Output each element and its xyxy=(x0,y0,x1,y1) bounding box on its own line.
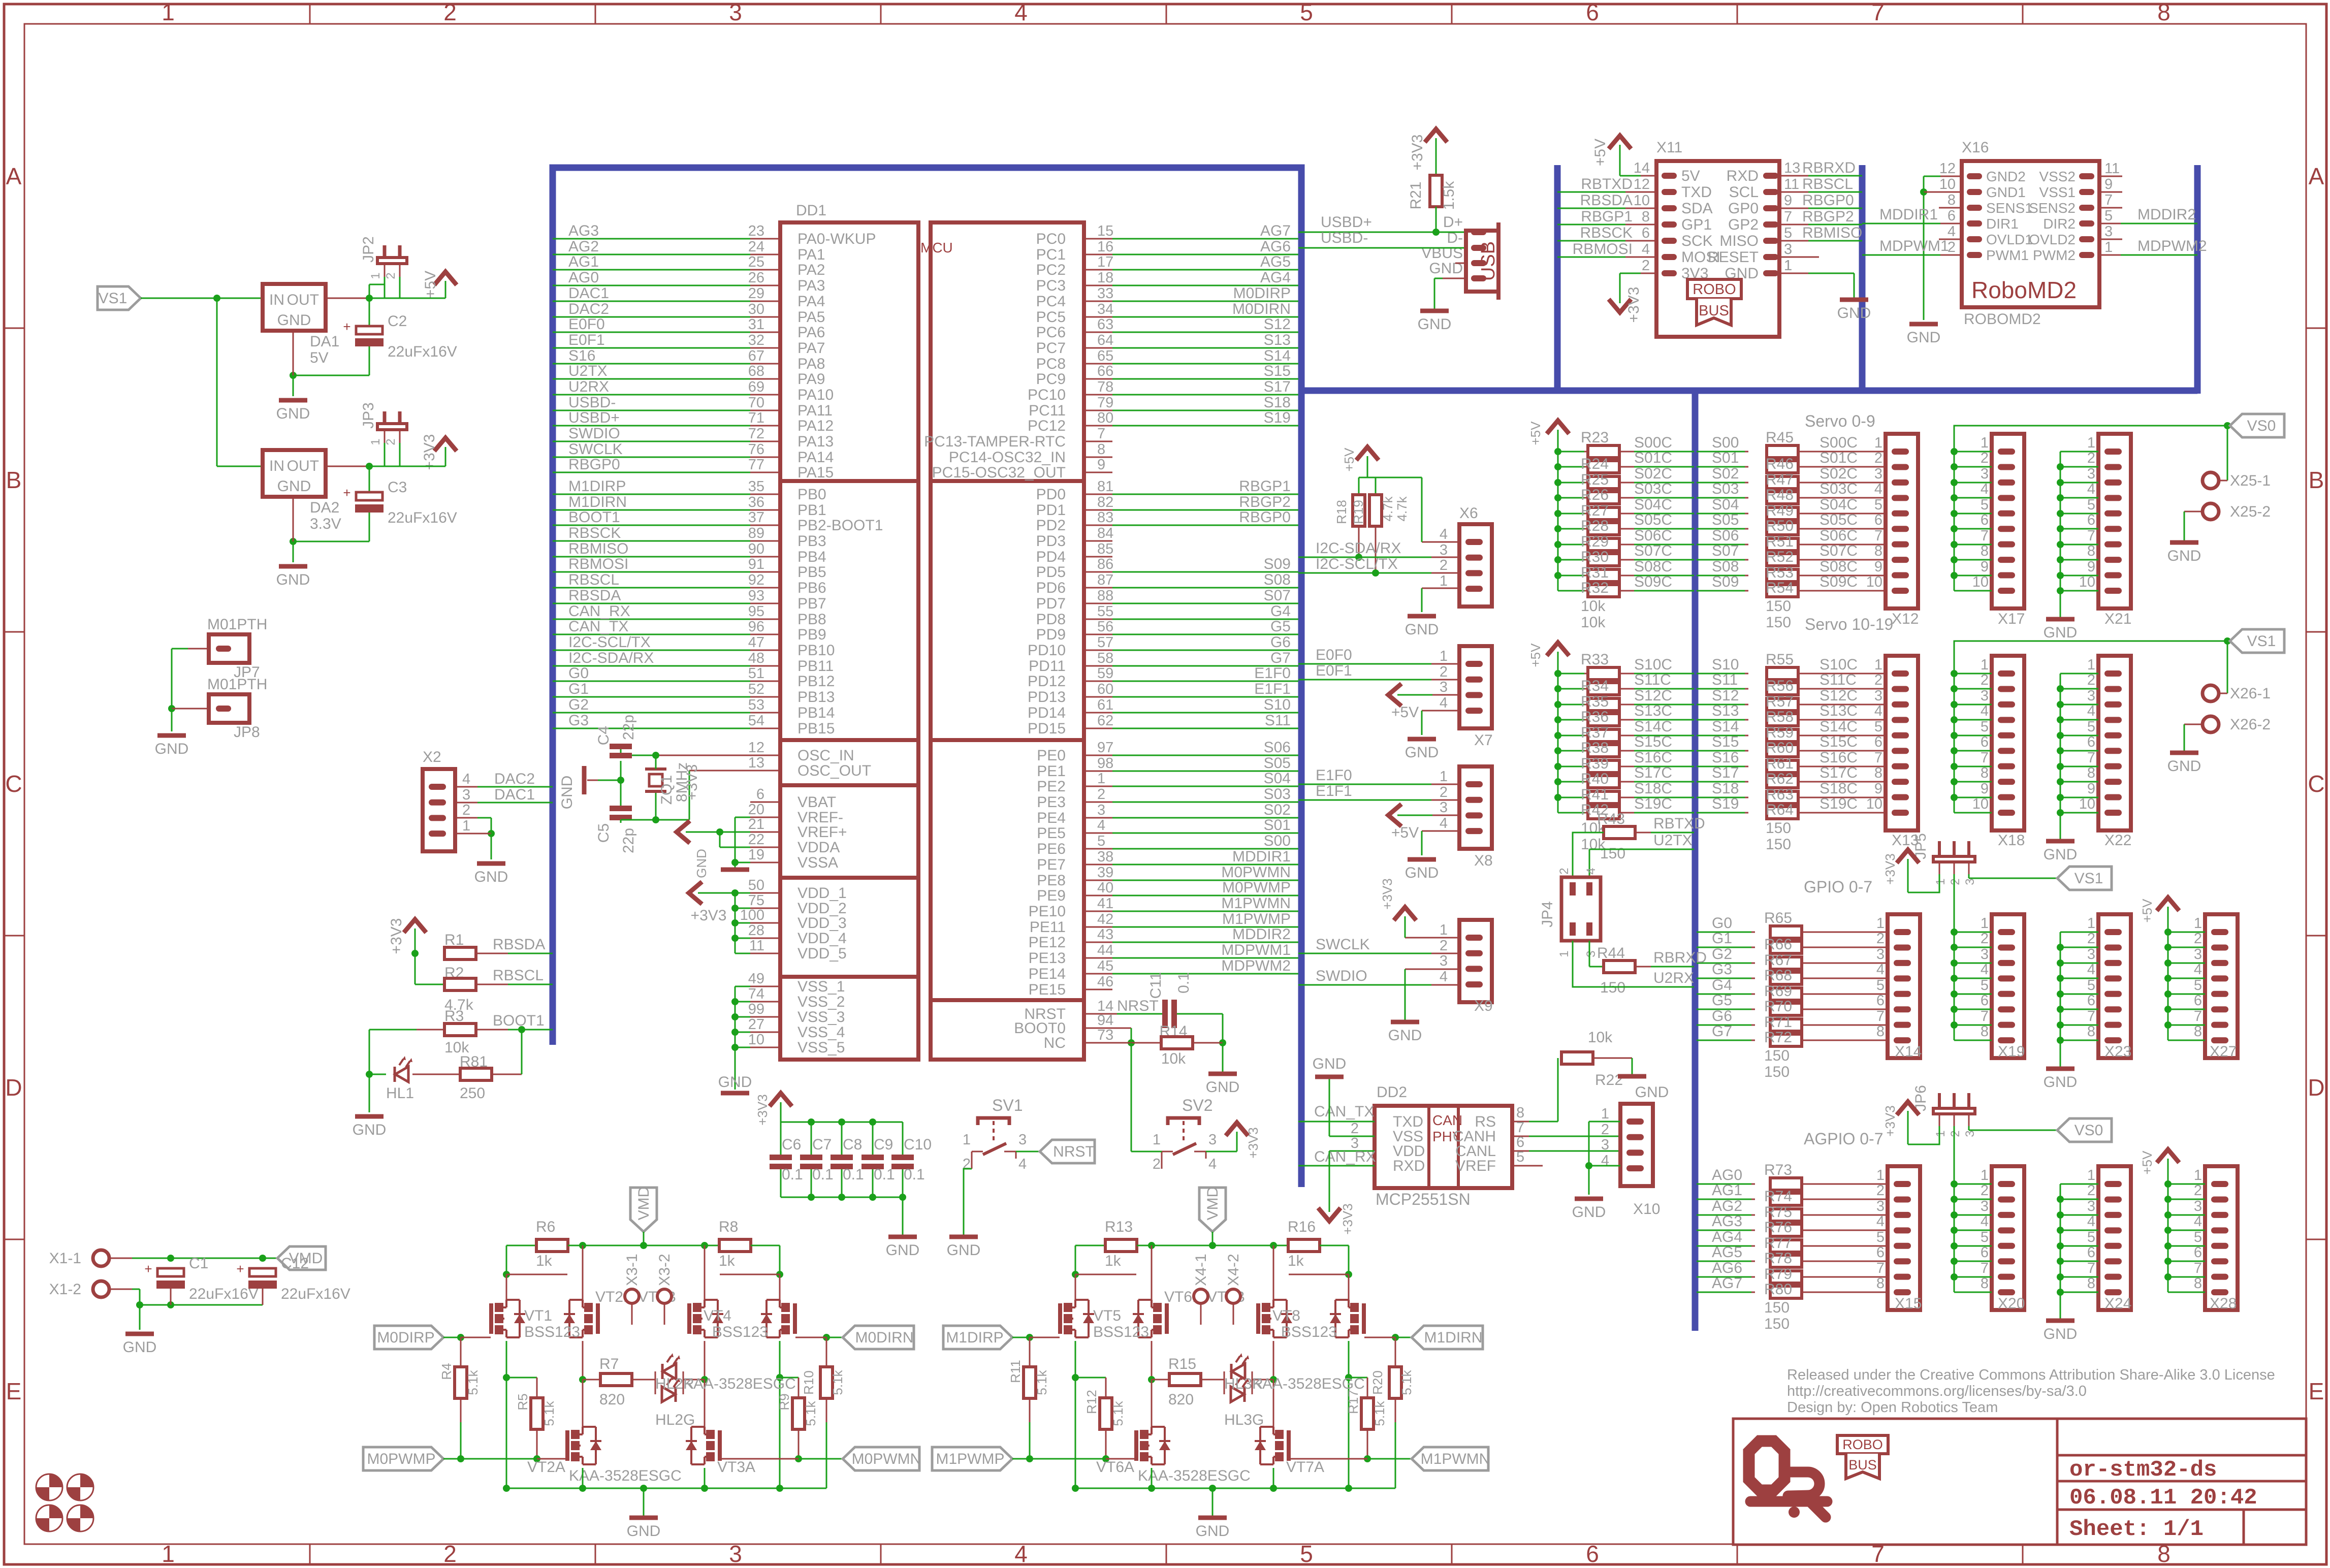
svg-text:PD7: PD7 xyxy=(1036,595,1066,612)
svg-text:46: 46 xyxy=(1097,974,1113,990)
svg-text:NC: NC xyxy=(1044,1035,1066,1051)
svg-text:RBGP2: RBGP2 xyxy=(1802,208,1854,225)
svg-text:PC1: PC1 xyxy=(1036,246,1066,263)
svg-text:PA4: PA4 xyxy=(797,293,825,310)
svg-text:10k: 10k xyxy=(1581,614,1606,631)
svg-text:150: 150 xyxy=(1764,1299,1790,1316)
svg-text:S19C: S19C xyxy=(1634,795,1672,812)
svg-text:7: 7 xyxy=(2104,192,2113,208)
svg-text:R69: R69 xyxy=(1764,983,1792,1000)
svg-text:78: 78 xyxy=(1097,379,1113,395)
svg-text:73: 73 xyxy=(1097,1027,1113,1043)
svg-text:5V: 5V xyxy=(310,349,329,366)
svg-text:X2: X2 xyxy=(423,749,441,765)
svg-text:4: 4 xyxy=(1018,1156,1027,1172)
svg-text:12: 12 xyxy=(748,740,764,756)
svg-text:4: 4 xyxy=(2194,962,2202,978)
svg-text:VS0: VS0 xyxy=(2247,418,2276,434)
svg-text:5.1k: 5.1k xyxy=(1399,1369,1414,1395)
svg-text:G3: G3 xyxy=(1712,961,1732,978)
svg-text:4: 4 xyxy=(1642,241,1650,258)
svg-text:2: 2 xyxy=(2194,931,2202,947)
svg-text:PC2: PC2 xyxy=(1036,262,1066,278)
svg-text:S06: S06 xyxy=(1264,739,1291,756)
svg-text:81: 81 xyxy=(1097,478,1113,495)
svg-text:PD4: PD4 xyxy=(1036,549,1066,565)
svg-text:70: 70 xyxy=(748,395,764,411)
svg-text:SCK: SCK xyxy=(1681,233,1713,249)
svg-text:S10C: S10C xyxy=(1820,656,1858,673)
svg-text:S06: S06 xyxy=(1712,527,1739,544)
svg-text:PA12: PA12 xyxy=(797,418,834,434)
svg-text:PA2: PA2 xyxy=(797,262,825,278)
svg-text:C3: C3 xyxy=(388,479,407,496)
svg-text:S06C: S06C xyxy=(1820,527,1858,544)
svg-text:+5V: +5V xyxy=(1391,704,1419,721)
svg-text:M1DIRP: M1DIRP xyxy=(568,478,626,495)
svg-text:M1DIRP: M1DIRP xyxy=(946,1329,1003,1346)
svg-text:8: 8 xyxy=(1874,765,1882,781)
svg-text:MDPWM1: MDPWM1 xyxy=(1879,238,1949,254)
svg-text:C8: C8 xyxy=(843,1136,862,1153)
svg-text:PE2: PE2 xyxy=(1037,778,1066,795)
svg-text:E0F0: E0F0 xyxy=(1316,647,1352,663)
svg-text:6: 6 xyxy=(1876,993,1885,1009)
svg-text:2: 2 xyxy=(1949,878,1962,885)
svg-text:GND: GND xyxy=(2167,758,2201,775)
svg-text:+3V3: +3V3 xyxy=(1340,1203,1355,1234)
svg-text:7: 7 xyxy=(1874,528,1882,544)
svg-text:BSS123: BSS123 xyxy=(1093,1324,1149,1340)
svg-text:MDPWM2: MDPWM2 xyxy=(2137,238,2207,254)
svg-text:U2TX: U2TX xyxy=(568,363,608,379)
svg-text:PC11: PC11 xyxy=(1029,402,1066,419)
svg-text:PA5: PA5 xyxy=(797,309,825,326)
svg-text:PA15: PA15 xyxy=(797,464,834,481)
svg-text:VSS1: VSS1 xyxy=(2039,184,2076,200)
svg-text:GND: GND xyxy=(353,1122,387,1138)
svg-text:M0DIRN: M0DIRN xyxy=(855,1329,913,1346)
svg-text:HL2G: HL2G xyxy=(655,1412,695,1428)
svg-text:25: 25 xyxy=(748,254,764,270)
svg-text:5.1k: 5.1k xyxy=(830,1369,845,1395)
svg-text:1: 1 xyxy=(2087,435,2095,451)
svg-text:7: 7 xyxy=(1871,0,1885,25)
svg-text:G0: G0 xyxy=(1712,915,1732,932)
svg-text:32: 32 xyxy=(748,332,764,348)
svg-text:44: 44 xyxy=(1097,942,1113,958)
svg-text:RXD: RXD xyxy=(1393,1158,1425,1174)
svg-text:PWM2: PWM2 xyxy=(2033,247,2076,263)
svg-text:S19: S19 xyxy=(1264,409,1291,426)
svg-text:VT7A: VT7A xyxy=(1286,1459,1324,1476)
svg-text:63: 63 xyxy=(1097,316,1113,333)
svg-text:GND: GND xyxy=(1405,621,1439,638)
svg-text:R39: R39 xyxy=(1581,755,1609,772)
svg-text:S02: S02 xyxy=(1712,465,1739,482)
svg-text:1: 1 xyxy=(2194,915,2202,932)
svg-text:1: 1 xyxy=(1876,915,1885,932)
svg-text:S01: S01 xyxy=(1712,450,1739,466)
svg-text:7: 7 xyxy=(1874,750,1882,766)
svg-text:+: + xyxy=(343,319,350,334)
svg-text:G0: G0 xyxy=(568,665,589,682)
svg-text:ROBO: ROBO xyxy=(1693,281,1736,298)
svg-text:2: 2 xyxy=(1876,1182,1885,1199)
svg-text:7: 7 xyxy=(1876,1008,1885,1025)
svg-text:GP1: GP1 xyxy=(1681,216,1712,233)
svg-text:10: 10 xyxy=(1972,574,1989,590)
svg-text:R77: R77 xyxy=(1764,1235,1792,1252)
svg-text:150: 150 xyxy=(1766,614,1791,631)
svg-text:11: 11 xyxy=(2104,161,2120,177)
svg-text:29: 29 xyxy=(748,285,764,302)
svg-text:1: 1 xyxy=(1876,1167,1885,1183)
svg-text:5.1k: 5.1k xyxy=(1110,1400,1126,1426)
svg-text:BSS123: BSS123 xyxy=(712,1324,768,1340)
svg-text:GND1: GND1 xyxy=(1986,184,2026,200)
svg-text:3: 3 xyxy=(2087,466,2095,482)
svg-text:51: 51 xyxy=(748,665,764,682)
svg-text:S18C: S18C xyxy=(1820,780,1858,797)
svg-text:USBD+: USBD+ xyxy=(1321,214,1372,231)
svg-text:C4: C4 xyxy=(595,726,612,745)
svg-text:26: 26 xyxy=(748,270,764,286)
svg-text:6: 6 xyxy=(2087,1244,2095,1261)
svg-text:1: 1 xyxy=(162,0,175,25)
svg-text:8: 8 xyxy=(1097,441,1105,458)
svg-text:37: 37 xyxy=(748,509,764,526)
svg-text:74: 74 xyxy=(748,986,764,1002)
svg-text:X28: X28 xyxy=(2210,1295,2237,1312)
svg-text:5: 5 xyxy=(2087,1229,2095,1245)
svg-text:1: 1 xyxy=(1981,1167,1989,1183)
svg-text:MISO: MISO xyxy=(1719,233,1759,249)
svg-text:R33: R33 xyxy=(1581,651,1609,668)
svg-text:OSC_OUT: OSC_OUT xyxy=(797,762,871,779)
svg-text:R16: R16 xyxy=(1288,1219,1316,1235)
svg-text:GND: GND xyxy=(947,1242,981,1259)
svg-text:G6: G6 xyxy=(1712,1008,1732,1025)
svg-text:VSS_2: VSS_2 xyxy=(797,994,845,1010)
svg-text:4: 4 xyxy=(1981,481,1989,497)
svg-text:+: + xyxy=(343,485,350,500)
svg-text:GND: GND xyxy=(1418,316,1452,333)
svg-text:+3V3: +3V3 xyxy=(755,1094,770,1125)
svg-text:1: 1 xyxy=(162,1541,175,1567)
svg-text:GND: GND xyxy=(277,312,311,329)
svg-text:+5V: +5V xyxy=(1592,139,1609,166)
svg-text:RXD: RXD xyxy=(1727,168,1759,184)
svg-text:10k: 10k xyxy=(1161,1050,1186,1067)
svg-text:6: 6 xyxy=(2087,993,2095,1009)
svg-text:MDDIR2: MDDIR2 xyxy=(2137,206,2196,223)
svg-text:VDD_1: VDD_1 xyxy=(797,885,847,902)
svg-text:4: 4 xyxy=(2087,703,2095,719)
svg-text:R58: R58 xyxy=(1766,709,1794,725)
svg-text:X23: X23 xyxy=(2104,1043,2131,1060)
svg-text:8: 8 xyxy=(2087,1275,2095,1292)
svg-text:R68: R68 xyxy=(1764,967,1792,984)
svg-text:75: 75 xyxy=(748,892,764,909)
svg-text:PE9: PE9 xyxy=(1037,887,1066,904)
svg-text:PA1: PA1 xyxy=(797,246,825,263)
svg-text:0.1: 0.1 xyxy=(843,1166,864,1183)
svg-text:VT6A: VT6A xyxy=(1096,1459,1134,1476)
svg-text:+3V3: +3V3 xyxy=(1625,287,1642,323)
svg-text:PB9: PB9 xyxy=(797,626,826,643)
svg-text:Released under the Creative Co: Released under the Creative Commons Attr… xyxy=(1787,1367,2275,1383)
svg-text:22p: 22p xyxy=(620,828,637,853)
svg-text:S08C: S08C xyxy=(1634,558,1672,575)
svg-text:PE8: PE8 xyxy=(1037,872,1066,889)
svg-text:SDA: SDA xyxy=(1681,200,1713,217)
svg-text:DIR1: DIR1 xyxy=(1986,216,2019,232)
svg-text:SWCLK: SWCLK xyxy=(568,441,623,458)
svg-text:3: 3 xyxy=(462,787,470,803)
svg-text:S16C: S16C xyxy=(1634,749,1672,766)
svg-text:R20: R20 xyxy=(1370,1370,1385,1395)
svg-text:E1F1: E1F1 xyxy=(1254,681,1291,697)
svg-text:I2C-SCL/TX: I2C-SCL/TX xyxy=(568,634,651,651)
svg-text:5: 5 xyxy=(1300,0,1313,25)
svg-text:S03C: S03C xyxy=(1634,481,1672,497)
svg-text:4: 4 xyxy=(2087,1213,2095,1230)
svg-text:R60: R60 xyxy=(1766,740,1794,756)
svg-text:R74: R74 xyxy=(1764,1188,1792,1205)
svg-text:R10: R10 xyxy=(801,1370,816,1395)
svg-text:DIR2: DIR2 xyxy=(2043,216,2076,232)
svg-text:PD8: PD8 xyxy=(1036,611,1066,628)
svg-text:PE13: PE13 xyxy=(1029,950,1066,967)
svg-text:71: 71 xyxy=(748,410,764,426)
svg-text:GND: GND xyxy=(559,776,576,810)
svg-text:6: 6 xyxy=(1948,208,1956,224)
svg-text:10: 10 xyxy=(1866,574,1882,590)
svg-text:SWDIO: SWDIO xyxy=(1316,968,1367,984)
svg-text:PD3: PD3 xyxy=(1036,533,1066,550)
svg-text:0.1: 0.1 xyxy=(812,1166,834,1183)
svg-text:6: 6 xyxy=(1586,1541,1599,1567)
svg-text:6: 6 xyxy=(1874,512,1882,528)
svg-text:62: 62 xyxy=(1097,713,1113,729)
svg-text:AG4: AG4 xyxy=(1260,269,1291,286)
svg-text:PE10: PE10 xyxy=(1029,903,1066,920)
svg-text:D: D xyxy=(2308,1074,2324,1101)
svg-text:79: 79 xyxy=(1097,395,1113,411)
svg-text:S17C: S17C xyxy=(1820,764,1858,781)
svg-text:S11C: S11C xyxy=(1634,671,1671,688)
svg-text:RBSCL: RBSCL xyxy=(568,571,619,588)
svg-text:R19: R19 xyxy=(1351,500,1366,524)
svg-text:S04: S04 xyxy=(1264,770,1291,787)
svg-text:22uFx16V: 22uFx16V xyxy=(388,343,457,360)
svg-text:S03C: S03C xyxy=(1820,481,1858,497)
svg-text:AG5: AG5 xyxy=(1260,253,1291,270)
svg-text:RBSDA: RBSDA xyxy=(493,936,545,953)
svg-text:10: 10 xyxy=(1939,176,1956,193)
svg-text:+3V3: +3V3 xyxy=(1380,878,1395,909)
svg-text:PD15: PD15 xyxy=(1028,720,1066,737)
svg-text:1: 1 xyxy=(1440,573,1448,589)
svg-text:PC7: PC7 xyxy=(1036,340,1066,357)
svg-text:S13C: S13C xyxy=(1820,702,1858,719)
svg-text:RBMISO: RBMISO xyxy=(1802,225,1862,241)
svg-text:PB14: PB14 xyxy=(797,705,835,721)
svg-text:PD2: PD2 xyxy=(1036,517,1066,534)
svg-text:66: 66 xyxy=(1097,363,1113,379)
svg-text:8: 8 xyxy=(1981,1275,1989,1292)
svg-text:S10: S10 xyxy=(1712,656,1739,673)
svg-text:GND2: GND2 xyxy=(1986,169,2026,184)
svg-text:6: 6 xyxy=(1874,734,1882,750)
svg-text:7: 7 xyxy=(1981,750,1989,766)
svg-text:PC10: PC10 xyxy=(1028,387,1066,403)
svg-text:8: 8 xyxy=(2194,1023,2202,1040)
svg-text:2: 2 xyxy=(462,802,470,818)
svg-text:10: 10 xyxy=(1866,796,1882,812)
svg-text:R9: R9 xyxy=(777,1393,792,1410)
svg-text:1: 1 xyxy=(1601,1106,1609,1122)
svg-text:PE14: PE14 xyxy=(1029,966,1066,982)
svg-text:Design by: Open Robotics Team: Design by: Open Robotics Team xyxy=(1787,1399,1998,1416)
svg-text:S06C: S06C xyxy=(1634,527,1672,544)
svg-text:M1PWMP: M1PWMP xyxy=(936,1451,1005,1467)
svg-text:10k: 10k xyxy=(1581,598,1606,615)
svg-text:S16: S16 xyxy=(1712,749,1739,766)
svg-text:7: 7 xyxy=(2194,1008,2202,1025)
svg-text:JP2: JP2 xyxy=(360,236,377,263)
svg-text:S00C: S00C xyxy=(1634,434,1672,451)
svg-text:VDD_5: VDD_5 xyxy=(797,945,847,962)
svg-text:4: 4 xyxy=(2194,1213,2202,1230)
svg-text:R70: R70 xyxy=(1764,998,1792,1015)
svg-text:S08: S08 xyxy=(1712,558,1739,575)
svg-text:2: 2 xyxy=(1642,258,1650,274)
svg-text:5: 5 xyxy=(1300,1541,1313,1567)
svg-text:PA11: PA11 xyxy=(797,402,833,419)
svg-text:S00: S00 xyxy=(1712,434,1739,451)
svg-text:93: 93 xyxy=(748,588,764,604)
svg-text:USBD-: USBD- xyxy=(568,394,616,411)
svg-text:150: 150 xyxy=(1764,1047,1790,1064)
svg-text:X14: X14 xyxy=(1895,1043,1922,1060)
svg-text:7: 7 xyxy=(2087,750,2095,766)
svg-text:2: 2 xyxy=(443,0,457,25)
svg-text:G6: G6 xyxy=(1270,634,1291,651)
svg-text:5.1k: 5.1k xyxy=(541,1400,557,1426)
svg-text:4: 4 xyxy=(1876,1213,1885,1230)
svg-text:3: 3 xyxy=(1440,953,1448,969)
svg-text:C11: C11 xyxy=(1147,972,1164,999)
svg-text:1: 1 xyxy=(1097,771,1105,787)
svg-text:R56: R56 xyxy=(1766,678,1794,694)
svg-text:S12: S12 xyxy=(1712,687,1739,704)
svg-text:X4-2: X4-2 xyxy=(1225,1254,1242,1286)
svg-text:RBMOSI: RBMOSI xyxy=(1573,241,1633,258)
svg-text:RBSDA: RBSDA xyxy=(1580,192,1633,209)
svg-text:72: 72 xyxy=(748,426,764,442)
svg-text:AG4: AG4 xyxy=(1712,1229,1742,1245)
svg-text:VREF: VREF xyxy=(1455,1158,1496,1174)
svg-text:+3V3: +3V3 xyxy=(421,434,438,470)
svg-text:PA9: PA9 xyxy=(797,371,825,388)
svg-text:R64: R64 xyxy=(1766,802,1794,818)
svg-text:3: 3 xyxy=(2194,1198,2202,1214)
svg-text:X20: X20 xyxy=(1998,1295,2025,1312)
svg-text:C: C xyxy=(2308,771,2324,797)
svg-text:R40: R40 xyxy=(1581,771,1609,787)
svg-text:X25-2: X25-2 xyxy=(2230,503,2271,520)
svg-text:92: 92 xyxy=(748,572,764,588)
svg-text:PD9: PD9 xyxy=(1036,626,1066,643)
svg-text:S02C: S02C xyxy=(1820,465,1858,482)
svg-text:R75: R75 xyxy=(1764,1204,1792,1221)
svg-text:83: 83 xyxy=(1097,509,1113,526)
svg-text:R7: R7 xyxy=(599,1356,619,1372)
svg-text:BOOT1: BOOT1 xyxy=(568,509,620,526)
svg-text:6: 6 xyxy=(1586,0,1599,25)
svg-text:PA6: PA6 xyxy=(797,324,825,341)
svg-text:2: 2 xyxy=(1557,868,1571,874)
svg-text:2: 2 xyxy=(1440,938,1448,954)
svg-text:GND: GND xyxy=(1837,305,1871,322)
svg-text:X19: X19 xyxy=(1998,1043,2025,1060)
svg-text:GND: GND xyxy=(155,741,189,757)
svg-text:PE11: PE11 xyxy=(1030,919,1066,936)
svg-text:4: 4 xyxy=(1097,817,1105,834)
svg-text:R61: R61 xyxy=(1766,755,1794,772)
svg-text:+5V: +5V xyxy=(2140,1150,2155,1175)
svg-text:GND: GND xyxy=(1313,1055,1347,1072)
svg-text:1: 1 xyxy=(1874,435,1882,451)
svg-text:1: 1 xyxy=(1981,435,1989,451)
svg-text:SENS2: SENS2 xyxy=(2029,200,2076,216)
svg-text:5: 5 xyxy=(1784,225,1792,241)
svg-text:S10: S10 xyxy=(1264,696,1291,713)
svg-text:SWCLK: SWCLK xyxy=(1316,936,1370,953)
svg-text:AG0: AG0 xyxy=(568,269,599,286)
svg-text:S08C: S08C xyxy=(1820,558,1858,575)
svg-text:+3V3: +3V3 xyxy=(388,918,405,954)
svg-text:R50: R50 xyxy=(1766,518,1794,534)
svg-text:S12C: S12C xyxy=(1820,687,1858,704)
svg-text:2: 2 xyxy=(384,438,398,445)
svg-text:PA7: PA7 xyxy=(797,340,825,357)
svg-text:E: E xyxy=(6,1378,22,1404)
svg-text:PC15-OSC32_OUT: PC15-OSC32_OUT xyxy=(932,464,1066,481)
svg-text:S18C: S18C xyxy=(1634,780,1672,797)
svg-text:VSS_1: VSS_1 xyxy=(797,978,845,995)
svg-text:2: 2 xyxy=(1097,786,1105,803)
svg-text:4: 4 xyxy=(1584,868,1598,874)
svg-text:OUT: OUT xyxy=(287,458,319,474)
svg-text:6: 6 xyxy=(2194,1244,2202,1261)
svg-text:22: 22 xyxy=(748,831,764,848)
svg-text:PE3: PE3 xyxy=(1037,794,1066,811)
svg-text:4.7k: 4.7k xyxy=(1394,496,1410,521)
svg-text:X3-2: X3-2 xyxy=(656,1254,673,1286)
svg-text:C: C xyxy=(5,771,22,797)
svg-text:X7: X7 xyxy=(1474,732,1493,749)
svg-text:9: 9 xyxy=(1981,559,1989,575)
svg-text:G4: G4 xyxy=(1712,977,1732,994)
svg-text:S05: S05 xyxy=(1264,755,1291,772)
svg-text:0.1: 0.1 xyxy=(782,1166,803,1183)
svg-text:3: 3 xyxy=(1981,1198,1989,1214)
svg-text:8: 8 xyxy=(2194,1275,2202,1292)
svg-text:R59: R59 xyxy=(1766,724,1794,741)
